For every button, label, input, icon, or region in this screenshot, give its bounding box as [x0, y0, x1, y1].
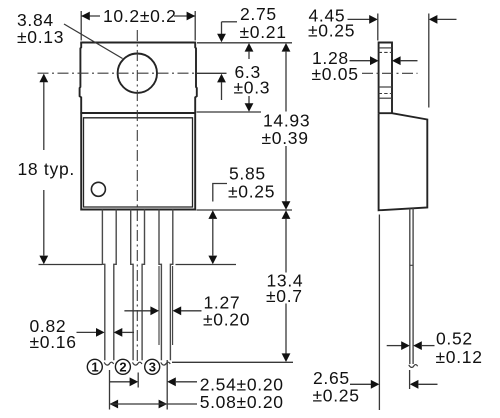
- svg-text:0.52: 0.52: [436, 328, 473, 348]
- extension line body top to right: [197, 111, 262, 113]
- arrowhead 2.75 top: [217, 34, 226, 43]
- tab strip notch line upper: [379, 47, 392, 49]
- svg-text:±0.7: ±0.7: [266, 286, 303, 306]
- arrowhead 10.2 left: [81, 12, 90, 21]
- arrowhead 5.85 bottom: [208, 256, 217, 265]
- svg-text:3: 3: [149, 359, 156, 374]
- lead 3 front view: [159, 210, 161, 361]
- arrowhead 13.4 bottom: [282, 353, 291, 362]
- pin 2 callout circle: [115, 359, 130, 374]
- arrowhead 1.28 left: [370, 56, 379, 65]
- svg-text:10.2±0.2: 10.2±0.2: [103, 6, 177, 26]
- arrowhead 5.08 right: [159, 400, 168, 409]
- front view: mounting tab outline with side notches: [80, 43, 82, 114]
- arrowhead 2.54 right: [167, 377, 176, 386]
- lead 2 tip break squiggle: [133, 362, 142, 365]
- svg-text:2.75: 2.75: [240, 4, 277, 24]
- lead 1 tip break squiggle: [104, 362, 113, 365]
- arrowhead 0.52 left: [401, 341, 410, 350]
- svg-text:±0.21: ±0.21: [240, 22, 287, 42]
- arrowhead 1.27 right: [173, 306, 182, 315]
- lead 1 front view: [102, 210, 104, 361]
- arrowhead 2.65 left: [371, 380, 380, 389]
- tab/body junction line: [80, 112, 196, 114]
- arrowhead 1.28 right: [392, 56, 401, 65]
- pin 3 callout circle: [145, 359, 160, 374]
- pin 3 extension line: [166, 360, 168, 410]
- lead 2 front view: [131, 210, 133, 361]
- arrowhead 14.93 bottom: [282, 201, 291, 210]
- svg-text:±0.3: ±0.3: [234, 78, 271, 98]
- extension line lead shoulder right side: [176, 264, 237, 266]
- arrowhead 0.52 right: [413, 341, 422, 350]
- svg-text:±0.25: ±0.25: [308, 21, 355, 41]
- arrowhead 2.65 right: [410, 380, 419, 389]
- body front face inner outline: [84, 118, 193, 207]
- side view lead shoulder tick: [410, 264, 413, 266]
- svg-text:5.08±0.20: 5.08±0.20: [200, 392, 284, 412]
- arrowhead 14.93 top: [282, 43, 291, 52]
- side view body outline: [379, 113, 428, 210]
- dimension 10.2±0.2 tab width: [80, 11, 82, 41]
- extension line tab top to right: [197, 42, 292, 44]
- side view lead: [409, 209, 411, 364]
- side view lead tip squiggle: [409, 365, 418, 368]
- pin 2 extension line: [137, 373, 139, 388]
- extension line lead shoulder left side: [39, 264, 103, 266]
- tab mounting hole: [118, 53, 157, 92]
- arrowhead 5.08 left: [110, 400, 119, 409]
- arrowhead 18 top: [39, 74, 48, 83]
- svg-text:±0.39: ±0.39: [262, 128, 309, 148]
- svg-text:5.85: 5.85: [229, 163, 266, 183]
- svg-text:±0.05: ±0.05: [312, 64, 359, 84]
- horizontal hole centerline front view: [38, 72, 198, 74]
- svg-text:±0.12: ±0.12: [436, 347, 483, 367]
- svg-text:±0.13: ±0.13: [17, 27, 64, 47]
- svg-text:±0.16: ±0.16: [30, 332, 77, 352]
- body outline front view: [81, 113, 195, 210]
- dimension 2.54±0.20 lead pitch: [110, 381, 131, 383]
- arrowhead 0.82 left: [96, 328, 105, 337]
- side view horizontal centerline: [362, 72, 418, 74]
- svg-text:2: 2: [119, 359, 126, 374]
- pin 1 callout circle: [87, 359, 102, 374]
- hole hidden edge bottom (dashed): [379, 93, 392, 95]
- arrowhead 4.45 left: [369, 15, 378, 24]
- arrowhead 4.45 right: [429, 15, 438, 24]
- arrowhead 1.27 left: [150, 306, 159, 315]
- vertical centerline front view: [136, 30, 138, 362]
- svg-text:±0.25: ±0.25: [313, 385, 360, 405]
- arrowhead 2.54 left: [130, 377, 139, 386]
- arrowhead 18 bottom: [39, 256, 48, 265]
- hole hidden edge top (dashed): [379, 51, 392, 53]
- pin1 index marker circle on body: [91, 182, 105, 196]
- svg-text:18 typ.: 18 typ.: [18, 159, 75, 179]
- pin 1 extension line: [109, 370, 111, 410]
- tab strip notch line middle: [379, 86, 392, 88]
- svg-text:±0.20: ±0.20: [203, 310, 250, 330]
- arrowhead 10.2 right: [187, 12, 196, 21]
- side view tab strip: [379, 43, 392, 114]
- arrowhead 13.4 top: [282, 210, 291, 219]
- svg-text:±0.25: ±0.25: [228, 181, 275, 201]
- extension line body bottom to right: [197, 209, 293, 211]
- extension line lead tips to right: [172, 361, 293, 363]
- tab strip notch line lower: [379, 97, 392, 99]
- lead 3 tip break squiggle: [161, 362, 170, 365]
- arrowhead 6.3 top: [245, 43, 254, 52]
- arrowhead 0.82 right: [114, 328, 123, 337]
- arrowhead 5.85 top: [208, 210, 217, 219]
- svg-text:1: 1: [91, 359, 98, 374]
- arrowhead 2.75 bottom: [217, 74, 226, 83]
- arrowhead 6.3 bottom: [245, 103, 254, 112]
